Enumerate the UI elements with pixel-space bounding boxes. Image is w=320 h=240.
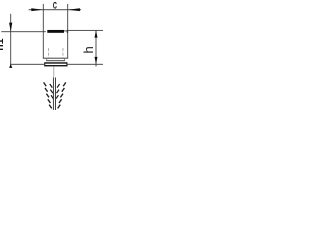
arrowhead left of dimension c (31, 8, 43, 11)
rope center line right (54, 78, 57, 111)
dimension line h1 (left vertical) (9, 14, 12, 68)
svg-text:h1: h1 (0, 38, 6, 50)
arrowhead h bottom (inside, pointing down) (95, 57, 98, 64)
svg-text:c: c (53, 0, 57, 12)
rope left strand hatch marks (inner column) (50, 84, 54, 99)
plate top line (44, 62, 67, 63)
extension line h1 top (left horizontal) (1, 30, 46, 33)
extension line h top (right horizontal) (68, 29, 103, 32)
arrowhead h1 top (outside, pointing down) (9, 23, 12, 32)
rope right strand hatch marks (inner column) (56, 84, 60, 99)
plate left end cap (43, 62, 46, 66)
dimension line c (top horizontal) (29, 8, 82, 11)
arrowhead h1 bottom (outside, pointing up) (9, 64, 12, 68)
neck right edge (63, 58, 66, 61)
rope right strand hatch marks (outer column) (58, 82, 66, 108)
extension line / part right edge (66, 4, 69, 59)
hidden bore line left (dashed) (47, 48, 50, 51)
rope center line upper (light) (52, 67, 55, 78)
ground/extension long line left segment (10, 63, 44, 66)
ground/extension long line right segment (67, 63, 103, 66)
sleeve bottom edge (43, 58, 68, 59)
neck left edge (45, 58, 48, 61)
top right corner junction blob (67, 30, 68, 33)
extension line / part left edge (42, 4, 45, 59)
hidden bore line right (dashed) (62, 48, 65, 51)
thin top face line to right edge (64, 29, 68, 32)
plate bottom line (44, 65, 67, 66)
svg-text:h: h (81, 46, 96, 53)
neck bottom edge (46, 60, 65, 61)
rope center line left (52, 78, 55, 111)
dimension line h (right vertical) (95, 30, 98, 66)
plate right end cap (65, 62, 68, 66)
arrowhead right of dimension c (68, 8, 80, 11)
thick top face bar of sleeve (47, 30, 64, 33)
rope left strand hatch marks (outer column) (44, 82, 52, 108)
arrowhead h top (inside, pointing up) (95, 30, 98, 37)
